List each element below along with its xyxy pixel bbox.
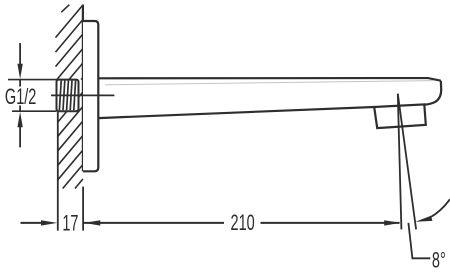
G1/2 dim bottom arrow bbox=[17, 112, 22, 127]
210 dimension line right part bbox=[261, 222, 400, 224]
spout top edge bbox=[98, 78, 441, 81]
svg-text:210: 210 bbox=[231, 210, 255, 235]
tilted 8-degree line B bbox=[398, 94, 416, 230]
8 degree leader line bbox=[408, 223, 430, 258]
210 left arrow bbox=[84, 220, 100, 225]
thread lines bbox=[59, 81, 75, 111]
svg-text:G1/2: G1/2 bbox=[5, 84, 36, 109]
label G1/2 background bbox=[5, 87, 37, 106]
svg-text:8°: 8° bbox=[432, 248, 446, 272]
spout faint top reflection line bbox=[105, 81, 434, 85]
dimension line tails (17) bbox=[21, 222, 44, 224]
210 right arrow bbox=[384, 220, 400, 225]
spout right end curve bbox=[424, 81, 441, 105]
210 dimension line left part bbox=[84, 222, 224, 224]
G1/2 dim top arrow bbox=[19, 43, 21, 147]
centerline over thread bbox=[56, 94, 80, 96]
svg-text:17: 17 bbox=[62, 210, 78, 235]
wall left edge line (continues as extension line of dim 17) bbox=[57, 112, 59, 231]
angle dim arc tail bbox=[430, 199, 450, 218]
wall face line bbox=[82, 5, 84, 172]
wall hatching bbox=[56, 5, 83, 189]
angle dim right arrow bbox=[415, 216, 432, 222]
spout bottom edge bbox=[98, 107, 374, 118]
thread G1/2 block bbox=[57, 80, 79, 112]
17 left arrow bbox=[41, 220, 57, 225]
spout centerline bbox=[51, 94, 114, 96]
extension line at wall face for dims 17/210 bbox=[82, 187, 84, 231]
flange (wall plate) bbox=[83, 21, 98, 171]
G1/2 bottom extension line bbox=[12, 110, 57, 112]
G1/2 top extension line bbox=[8, 79, 57, 81]
vertical reference line A bbox=[398, 94, 402, 230]
outlet box (aerator) bbox=[374, 104, 426, 128]
